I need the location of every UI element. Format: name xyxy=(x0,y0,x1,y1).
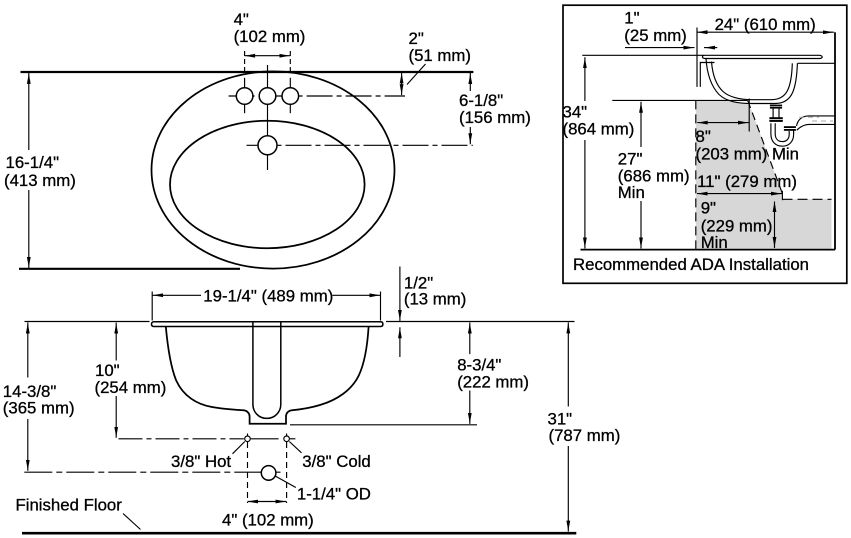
svg-text:19-1/4" (489 mm): 19-1/4" (489 mm) xyxy=(203,287,333,306)
svg-text:16-1/4": 16-1/4" xyxy=(6,153,60,172)
svg-text:1": 1" xyxy=(624,9,639,28)
svg-text:Recommended ADA Installation: Recommended ADA Installation xyxy=(573,255,809,274)
svg-text:Min: Min xyxy=(701,233,728,252)
svg-text:Finished Floor: Finished Floor xyxy=(16,496,123,515)
svg-text:(787 mm): (787 mm) xyxy=(549,426,621,445)
svg-text:(25 mm): (25 mm) xyxy=(624,26,686,45)
svg-text:Min: Min xyxy=(618,183,645,202)
svg-text:(413 mm): (413 mm) xyxy=(4,171,76,190)
svg-text:9": 9" xyxy=(701,199,716,218)
svg-text:(222 mm): (222 mm) xyxy=(457,373,529,392)
svg-text:(102 mm): (102 mm) xyxy=(234,27,306,46)
svg-text:24" (610 mm): 24" (610 mm) xyxy=(715,15,816,34)
svg-text:(254 mm): (254 mm) xyxy=(95,378,167,397)
svg-text:(13 mm): (13 mm) xyxy=(404,290,466,309)
svg-text:11" (279 mm): 11" (279 mm) xyxy=(697,172,797,191)
svg-text:1-1/4" OD: 1-1/4" OD xyxy=(297,485,371,504)
svg-text:(51 mm): (51 mm) xyxy=(409,46,471,65)
svg-text:(203 mm) Min: (203 mm) Min xyxy=(696,145,800,164)
svg-text:4" (102 mm): 4" (102 mm) xyxy=(222,511,314,530)
svg-text:(156 mm): (156 mm) xyxy=(459,108,531,127)
svg-text:3/8" Hot: 3/8" Hot xyxy=(171,452,231,471)
svg-text:8": 8" xyxy=(696,127,711,146)
svg-text:(864 mm): (864 mm) xyxy=(563,120,635,139)
svg-text:3/8" Cold: 3/8" Cold xyxy=(302,452,370,471)
svg-text:(365 mm): (365 mm) xyxy=(3,398,75,417)
